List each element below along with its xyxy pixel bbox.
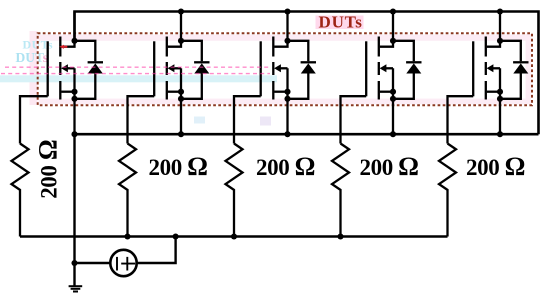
node: diode anode junction Q1	[71, 96, 77, 102]
wire: current source left lead	[75, 262, 111, 264]
svg-text:DUTs: DUTs	[16, 50, 49, 65]
node: source contact junction Q3	[284, 89, 290, 95]
node: current source left junction	[71, 260, 77, 266]
node: top rail junction Q3	[284, 8, 290, 14]
node: diode anode junction Q5	[497, 96, 503, 102]
overlay artifact: pink dashed line 1	[5, 66, 270, 68]
node: diode anode junction Q3	[284, 96, 290, 102]
node: top rail junction Q2	[178, 8, 184, 14]
background artifact: pale pink band left of DUT box	[30, 31, 38, 105]
transistor Q4	[366, 12, 393, 135]
background artifact: faint smudge 1	[194, 117, 205, 124]
node: bottom rail junction R4	[337, 233, 343, 239]
wire: top drain rail with left and right drops	[75, 12, 539, 135]
wire: current source right lead	[137, 237, 176, 264]
background artifact: cyan band	[0, 75, 277, 82]
node: source contact junction Q4	[390, 89, 396, 95]
body diode D5	[500, 41, 529, 99]
body diode D4	[393, 41, 422, 99]
body diode D3	[288, 41, 317, 99]
node: drain junction Q5	[497, 38, 503, 44]
body diode D2	[181, 41, 210, 99]
node: source contact junction Q1	[71, 89, 77, 95]
wire: ground/source stem	[73, 134, 75, 286]
node: bottom rail junction current source	[173, 233, 179, 239]
background artifact: faint smudge 2	[260, 117, 271, 126]
node: bottom rail junction R3	[231, 233, 237, 239]
overlay artifact: pink dashed line 2	[1, 73, 270, 75]
DUTs label highlight	[316, 16, 364, 30]
wire: gate lead Q5 to resistor R5	[448, 96, 474, 143]
node: bottom rail junction R2	[124, 233, 130, 239]
svg-text:200 Ω: 200 Ω	[34, 140, 63, 199]
svg-text:200 Ω: 200 Ω	[256, 152, 315, 181]
node: diode anode junction Q4	[390, 96, 396, 102]
ground	[69, 286, 83, 291]
node: source rail junction Q2	[178, 131, 184, 137]
transistor Q1	[48, 12, 75, 135]
wire: bottom gate-return rail	[20, 235, 448, 238]
resistor R3	[226, 144, 243, 237]
node: source contact junction Q2	[178, 89, 184, 95]
background artifact: pink strip inside box top	[39, 35, 532, 41]
transistor Q3	[261, 12, 288, 135]
node: source rail junction Q1	[71, 131, 77, 137]
svg-text:200 Ω: 200 Ω	[360, 152, 419, 181]
node: drain junction Q1	[71, 38, 77, 44]
node: source rail junction Q4	[390, 131, 396, 137]
svg-text:200 Ω: 200 Ω	[149, 152, 208, 181]
overlay artifact: red mark on Q1 drain contact	[59, 45, 67, 49]
transistor Q2	[154, 12, 181, 135]
node: drain junction Q4	[390, 38, 396, 44]
background artifact: pink strip inside box bottom	[39, 99, 532, 105]
node: drain junction Q3	[284, 38, 290, 44]
node: top rail junction Q5	[497, 8, 503, 14]
resistor R5	[439, 144, 456, 237]
wire: source rail	[75, 133, 539, 136]
resistor R4	[332, 144, 349, 237]
node: top rail junction Q4	[390, 8, 396, 14]
wire: gate lead Q2 to resistor R2	[128, 96, 155, 143]
svg-text:200 Ω: 200 Ω	[466, 152, 525, 181]
transistor Q5	[473, 12, 500, 135]
body diode D1	[75, 41, 104, 99]
wire: gate lead Q1 to resistor R1	[20, 96, 48, 143]
resistor R1	[12, 144, 29, 237]
node: drain junction Q2	[178, 38, 184, 44]
node: source contact junction Q5	[497, 89, 503, 95]
DUT enclosure dashed box	[38, 33, 532, 105]
node: source rail junction Q5	[497, 131, 503, 137]
current source I1	[110, 250, 136, 276]
background artifact: pink strip inside box right	[526, 34, 532, 104]
wire: gate lead Q3 to resistor R3	[234, 96, 261, 143]
svg-text:DUTs: DUTs	[319, 13, 363, 32]
node: source rail junction Q3	[284, 131, 290, 137]
resistor R2	[119, 144, 136, 237]
wire: gate lead Q4 to resistor R4	[341, 96, 367, 143]
node: diode anode junction Q2	[178, 96, 184, 102]
